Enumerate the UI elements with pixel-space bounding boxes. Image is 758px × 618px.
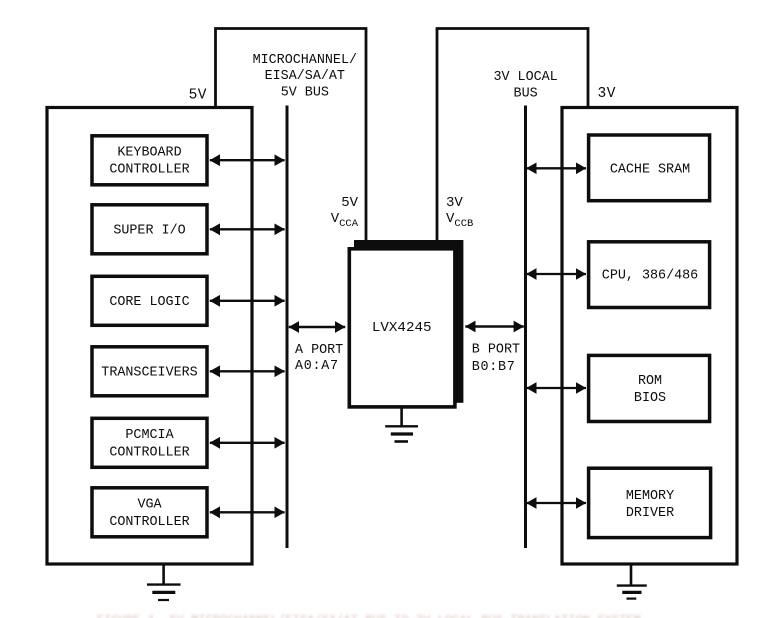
svg-text:A PORT: A PORT xyxy=(295,343,343,358)
wire keyboard to bus A xyxy=(210,159,285,161)
svg-text:CACHE SRAM: CACHE SRAM xyxy=(610,162,690,177)
keyboard controller block xyxy=(92,136,207,185)
svg-text:FIGURE 1. 5V MICROCHANNEL/EISA: FIGURE 1. 5V MICROCHANNEL/EISA/SA/AT BUS… xyxy=(97,614,641,618)
wire vga to bus A xyxy=(210,511,285,513)
wire super i/o to bus A xyxy=(210,228,285,230)
svg-text:CPU, 386/486: CPU, 386/486 xyxy=(602,268,698,283)
memory driver block xyxy=(589,468,711,537)
wire pcmcia to bus A xyxy=(210,442,285,444)
svg-text:BUS: BUS xyxy=(514,87,538,102)
svg-text:5V: 5V xyxy=(189,88,207,104)
svg-text:SUPER I/O: SUPER I/O xyxy=(113,224,185,239)
wire transceivers to bus A xyxy=(210,370,285,372)
U1 LVX4245 body xyxy=(349,249,455,407)
svg-text:BIOS: BIOS xyxy=(634,391,666,406)
3V local bus box xyxy=(437,29,588,241)
svg-text:A0:A7: A0:A7 xyxy=(295,359,339,374)
right 3V system box xyxy=(562,108,737,565)
wire bus B to rom bios xyxy=(526,387,586,389)
ground U1 xyxy=(385,408,418,442)
5V bus wire A xyxy=(286,106,289,549)
wire B port to bus B xyxy=(465,325,524,328)
U1 LVX4245 shadow xyxy=(354,240,463,403)
transceivers block xyxy=(92,347,207,396)
super i/o block xyxy=(92,205,207,254)
svg-text:TRANSCEIVERS: TRANSCEIVERS xyxy=(101,366,197,381)
svg-text:B PORT: B PORT xyxy=(472,343,520,358)
svg-text:EISA/SA/AT: EISA/SA/AT xyxy=(265,69,345,84)
svg-text:3V LOCAL: 3V LOCAL xyxy=(493,70,557,85)
cpu block xyxy=(589,242,710,308)
wire bus B to cpu xyxy=(526,273,586,275)
svg-text:CORE LOGIC: CORE LOGIC xyxy=(109,295,189,310)
wire bus B to memory driver xyxy=(526,502,586,504)
rom bios block xyxy=(589,355,710,421)
svg-text:MICROCHANNEL/: MICROCHANNEL/ xyxy=(253,53,357,68)
svg-text:B0:B7: B0:B7 xyxy=(472,360,516,375)
svg-text:5V BUS: 5V BUS xyxy=(281,86,329,101)
ground right box xyxy=(617,564,647,599)
svg-text:3V: 3V xyxy=(446,195,463,211)
svg-text:VGA: VGA xyxy=(137,498,162,513)
svg-text:3V: 3V xyxy=(598,86,616,102)
left 5V system box xyxy=(47,108,252,565)
svg-text:CONTROLLER: CONTROLLER xyxy=(109,446,189,461)
wire bus A to A port xyxy=(289,326,345,329)
microchannel 5V bus box xyxy=(216,29,367,241)
cache sram block xyxy=(589,135,710,201)
svg-text:DRIVER: DRIVER xyxy=(626,506,674,521)
svg-text:MEMORY: MEMORY xyxy=(626,489,674,504)
vga controller block xyxy=(92,488,207,537)
svg-text:LVX4245: LVX4245 xyxy=(372,320,432,336)
core logic block xyxy=(92,276,207,325)
svg-text:CONTROLLER: CONTROLLER xyxy=(109,515,189,530)
svg-text:CONTROLLER: CONTROLLER xyxy=(109,163,189,178)
svg-text:ROM: ROM xyxy=(638,374,662,389)
3V bus wire B xyxy=(524,106,527,549)
wire core logic to bus A xyxy=(210,300,285,302)
ground left box xyxy=(147,564,181,600)
svg-text:PCMCIA: PCMCIA xyxy=(125,428,174,443)
wire bus B to cache sram xyxy=(526,167,586,169)
svg-text:KEYBOARD: KEYBOARD xyxy=(117,145,181,160)
svg-text:5V: 5V xyxy=(341,195,358,211)
pcmcia controller block xyxy=(92,418,207,467)
